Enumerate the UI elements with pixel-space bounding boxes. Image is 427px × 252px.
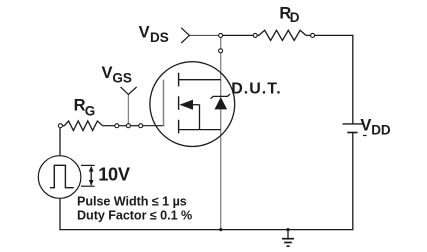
MOSFET gate electrode: [163, 80, 165, 127]
V_GS probe fork: [121, 87, 137, 95]
wire R_G to gate terminals: [103, 125, 115, 127]
battery V_DD bottom plate (-): [347, 132, 357, 134]
node drain vertical test line: [220, 35, 222, 229]
pulse waveform symbol: [50, 165, 74, 187]
wire gate terminal to MOSFET gate: [143, 125, 165, 127]
svg-text:R: R: [74, 97, 86, 115]
wire drain node to R_D: [221, 34, 254, 36]
MOSFET source bar: [179, 129, 221, 131]
battery minus sign: [363, 135, 367, 137]
wire pulse generator to R_G: [59, 128, 61, 156]
terminal circle drain top: [219, 33, 223, 37]
wire battery to bottom rail: [352, 133, 354, 230]
wire R_D right lead: [306, 34, 311, 36]
wire V_DS probe to drain node: [189, 34, 220, 36]
svg-text:D.U.T.: D.U.T.: [231, 81, 281, 98]
bottom rail wire: [59, 229, 353, 231]
svg-text:D: D: [290, 10, 300, 25]
ground bar 1: [282, 238, 294, 240]
MOSFET channel dashed line: [178, 73, 180, 136]
MOSFET drain bar: [179, 79, 221, 81]
svg-text:10V: 10V: [98, 165, 130, 185]
body diode triangle: [215, 97, 228, 109]
battery V_DD top plate (+): [343, 123, 365, 125]
wire right side down to battery: [352, 35, 354, 124]
terminal circle drain lower: [219, 49, 223, 53]
svg-text:V: V: [139, 23, 150, 41]
pulse generator circle: [38, 156, 81, 199]
ground bar 3: [287, 245, 290, 247]
terminal circle R_D left: [253, 33, 257, 37]
svg-text:DD: DD: [371, 122, 391, 137]
junction dot source to rail: [219, 228, 222, 231]
terminal circle R_G left: [58, 124, 62, 128]
wire R_G left lead: [62, 125, 64, 127]
body diode cathode bar: [211, 94, 230, 99]
ground junction dot: [286, 228, 289, 231]
wire gate node segment: [130, 125, 138, 127]
10V dimension bottom bar: [81, 185, 95, 187]
svg-text:G: G: [85, 104, 96, 119]
MOSFET body arrow: [179, 100, 193, 110]
wire gate node segment: [119, 125, 127, 127]
resistor R_D zigzag: [259, 30, 306, 40]
10V dimension top bar: [81, 164, 95, 166]
wire R_D left lead: [257, 34, 259, 36]
10V double arrow: [90, 167, 92, 185]
wire pulse generator to bottom rail: [59, 198, 61, 230]
svg-text:Pulse Width ≤ 1 µs: Pulse Width ≤ 1 µs: [77, 194, 187, 208]
terminal circle V_GS tap: [126, 124, 130, 128]
ground bar 2: [284, 242, 292, 244]
V_GS probe stem: [127, 94, 129, 123]
resistor R_G zigzag: [64, 121, 102, 131]
svg-text:Duty Factor ≤ 0.1 %: Duty Factor ≤ 0.1 %: [77, 208, 192, 222]
ground stub: [287, 230, 289, 239]
svg-text:GS: GS: [112, 71, 132, 86]
svg-text:V: V: [102, 64, 113, 82]
probe arrow for V_DS: [181, 28, 189, 43]
wire R_D to top-right corner: [315, 34, 354, 36]
terminal circle gate: [139, 124, 143, 128]
MOSFET D.U.T. circle: [150, 62, 235, 147]
svg-text:DS: DS: [150, 30, 169, 45]
svg-text:V: V: [360, 117, 371, 135]
terminal circle R_D right: [311, 33, 315, 37]
terminal circle R_G right: [115, 124, 119, 128]
